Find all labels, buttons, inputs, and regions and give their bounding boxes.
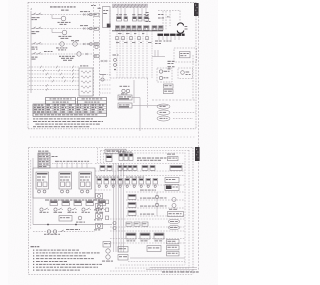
harness connector nodes [116,33,152,43]
vertical harness bundle lower [114,163,124,252]
wire stubs from band [118,8,146,17]
igniter box lower [128,246,185,262]
heating element bank box [79,65,93,96]
door lock motor cluster [120,86,130,95]
notes numbered lines [33,250,102,271]
notes under table [33,118,103,127]
connector cluster top middle [118,152,133,161]
component row y200 [50,201,106,206]
index tab upper [194,3,199,16]
band drop wires and labels [155,36,179,44]
right column lower components [165,154,184,256]
nested dashed borders lower panel [98,148,194,271]
left switch column lower mid [94,193,103,230]
oven sensor dashed box [174,48,197,62]
terminal dark band [158,34,185,36]
index tab lower [195,147,200,161]
mid relay circles column [155,192,166,216]
wire label row right [137,158,166,161]
table body grid [33,104,107,113]
page edge line right [198,16,200,271]
mid small box row y222 [126,222,148,226]
oven light dashed box [178,68,193,79]
pin label row with drops [52,161,93,168]
switch row y209 [40,208,106,213]
connector pair top middle [106,153,113,161]
inner dashed enclosure [110,10,148,108]
wire rung 1 oven lights [31,11,94,25]
bundle tap boxes [106,200,109,220]
wire rung 2 bake element [31,25,94,39]
component row mid y179 [96,177,158,188]
wire label column [146,12,151,22]
terminal strip rails [91,4,101,96]
wire rung 3 broil element [31,40,94,50]
bottom-left bus wire [33,224,112,226]
relay block row [116,14,149,21]
wire run lower pair [29,84,79,91]
component row y218 [59,216,85,223]
component row mid y166 [100,166,155,171]
cross wires bottom middle [110,185,185,243]
top panel border [28,2,196,129]
paper grain overlay [26,0,202,279]
junction box lower left-mid [103,242,111,248]
convection fan ovals [157,104,196,121]
right feed wires [158,11,180,31]
cooling fan connector boxes [118,80,168,131]
connector strip row [112,26,163,31]
bottom middle component boxes [126,233,164,241]
right ladder lower [126,190,185,216]
table header right [78,98,107,105]
left supply rail [30,11,32,93]
wire rung 4 convect element [31,51,94,61]
switch stack right [164,84,174,94]
drawing part number [146,268,199,273]
multi-wire run with ticks [29,66,79,83]
title CENTER OVEN CIRCUIT [50,6,76,10]
left rail lower panel [31,158,33,230]
control board box lower-left [33,168,95,198]
convection motor symbol [177,23,187,33]
thermostat right of rails [100,60,112,93]
keyboard pin table [38,151,58,168]
lower title box [105,149,126,154]
table header left [46,98,76,105]
fan motors dashed box [157,68,172,82]
fuse block tall box [103,7,111,28]
lower motor circles [102,249,113,262]
table footer row [33,113,107,116]
relay labels right-mid [152,50,175,69]
lamp rung lower-left [33,229,95,235]
notes heading lower [31,246,40,247]
inner dashed vertical right [192,55,194,100]
latch switch pair [113,55,119,71]
bottom panel border [29,148,194,275]
cross wires lower middle [95,164,185,191]
lower switch boxes [118,247,128,261]
dashed separator [152,99,196,101]
wire bundle hatch band [112,4,148,8]
row of smudge labels under board [45,200,105,201]
corner mark [30,7,32,11]
separator dashes below top panel [30,136,195,138]
harness vertical wires [117,31,152,78]
